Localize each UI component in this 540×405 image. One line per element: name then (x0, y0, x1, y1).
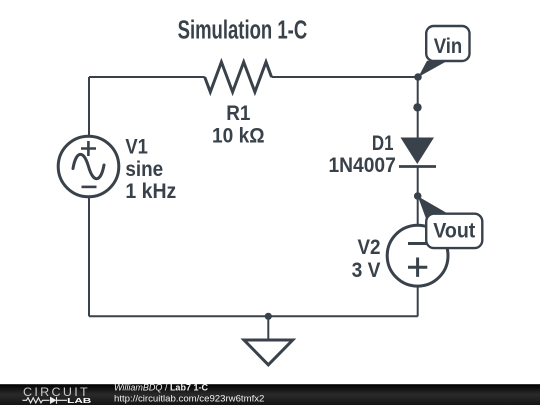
resistor R1 (205, 62, 272, 92)
svg-text:1 kHz: 1 kHz (125, 180, 176, 203)
junction dot at ground node (265, 313, 272, 320)
node Vout callout box (426, 214, 482, 248)
V1 sine waveform (73, 154, 104, 178)
junction dot at node Vin (414, 73, 422, 81)
svg-text:D1: D1 (372, 132, 394, 155)
svg-text:Simulation 1-C: Simulation 1-C (178, 17, 308, 45)
wire top-left horizontal (V1 top to R1 left) (89, 76, 205, 78)
voltage source V1 (sine) (58, 136, 119, 197)
wire ground stub (267, 316, 269, 340)
V1 plus sign (81, 141, 96, 156)
ground (244, 340, 293, 365)
wire left vertical lower (V1 - terminal down to bottom wire) (88, 197, 90, 317)
svg-text:Vout: Vout (433, 219, 475, 242)
node Vin callout box (426, 26, 469, 61)
junction dot at node Vout (414, 192, 422, 200)
V2 minus sign (408, 242, 427, 245)
svg-text:LAB: LAB (67, 396, 92, 405)
svg-text:Vin: Vin (434, 35, 463, 58)
svg-text:V2: V2 (358, 236, 381, 259)
wire right vertical (node Vin down to diode D1 anode) (417, 77, 419, 138)
CircuitLab logo diode triangle (50, 397, 57, 404)
svg-text:WilliamBDQ / Lab7 1-C: WilliamBDQ / Lab7 1-C (114, 383, 208, 393)
node Vout callout pointer (418, 196, 449, 220)
svg-text:R1: R1 (226, 102, 250, 125)
node Vin callout pointer (418, 61, 447, 77)
wire right vertical (V2 + terminal to bottom wire) (417, 286, 419, 316)
svg-text:http://circuitlab.com/ce923rw6: http://circuitlab.com/ce923rw6tmfx2 (114, 394, 264, 405)
svg-text:1N4007: 1N4007 (329, 154, 396, 177)
voltage source V2 (DC 3V) (387, 225, 448, 286)
wire top-right horizontal (R1 right to node Vin) (272, 76, 419, 78)
svg-text:10 kΩ: 10 kΩ (212, 125, 265, 148)
wire right vertical (diode D1 cathode to V2 - terminal) (417, 167, 419, 226)
svg-text:sine: sine (125, 158, 163, 181)
CircuitLab logo resistor-diode symbol (23, 397, 68, 404)
V1 minus sign (82, 186, 97, 189)
wire left vertical upper (top wire down to V1 + terminal) (88, 77, 90, 136)
svg-text:V1: V1 (125, 136, 148, 159)
wire bottom horizontal (89, 315, 418, 317)
V2 plus sign (408, 258, 427, 277)
svg-text:3 V: 3 V (352, 259, 381, 282)
diode D1 (399, 138, 436, 167)
junction dot on wire above diode D1 (413, 103, 421, 111)
